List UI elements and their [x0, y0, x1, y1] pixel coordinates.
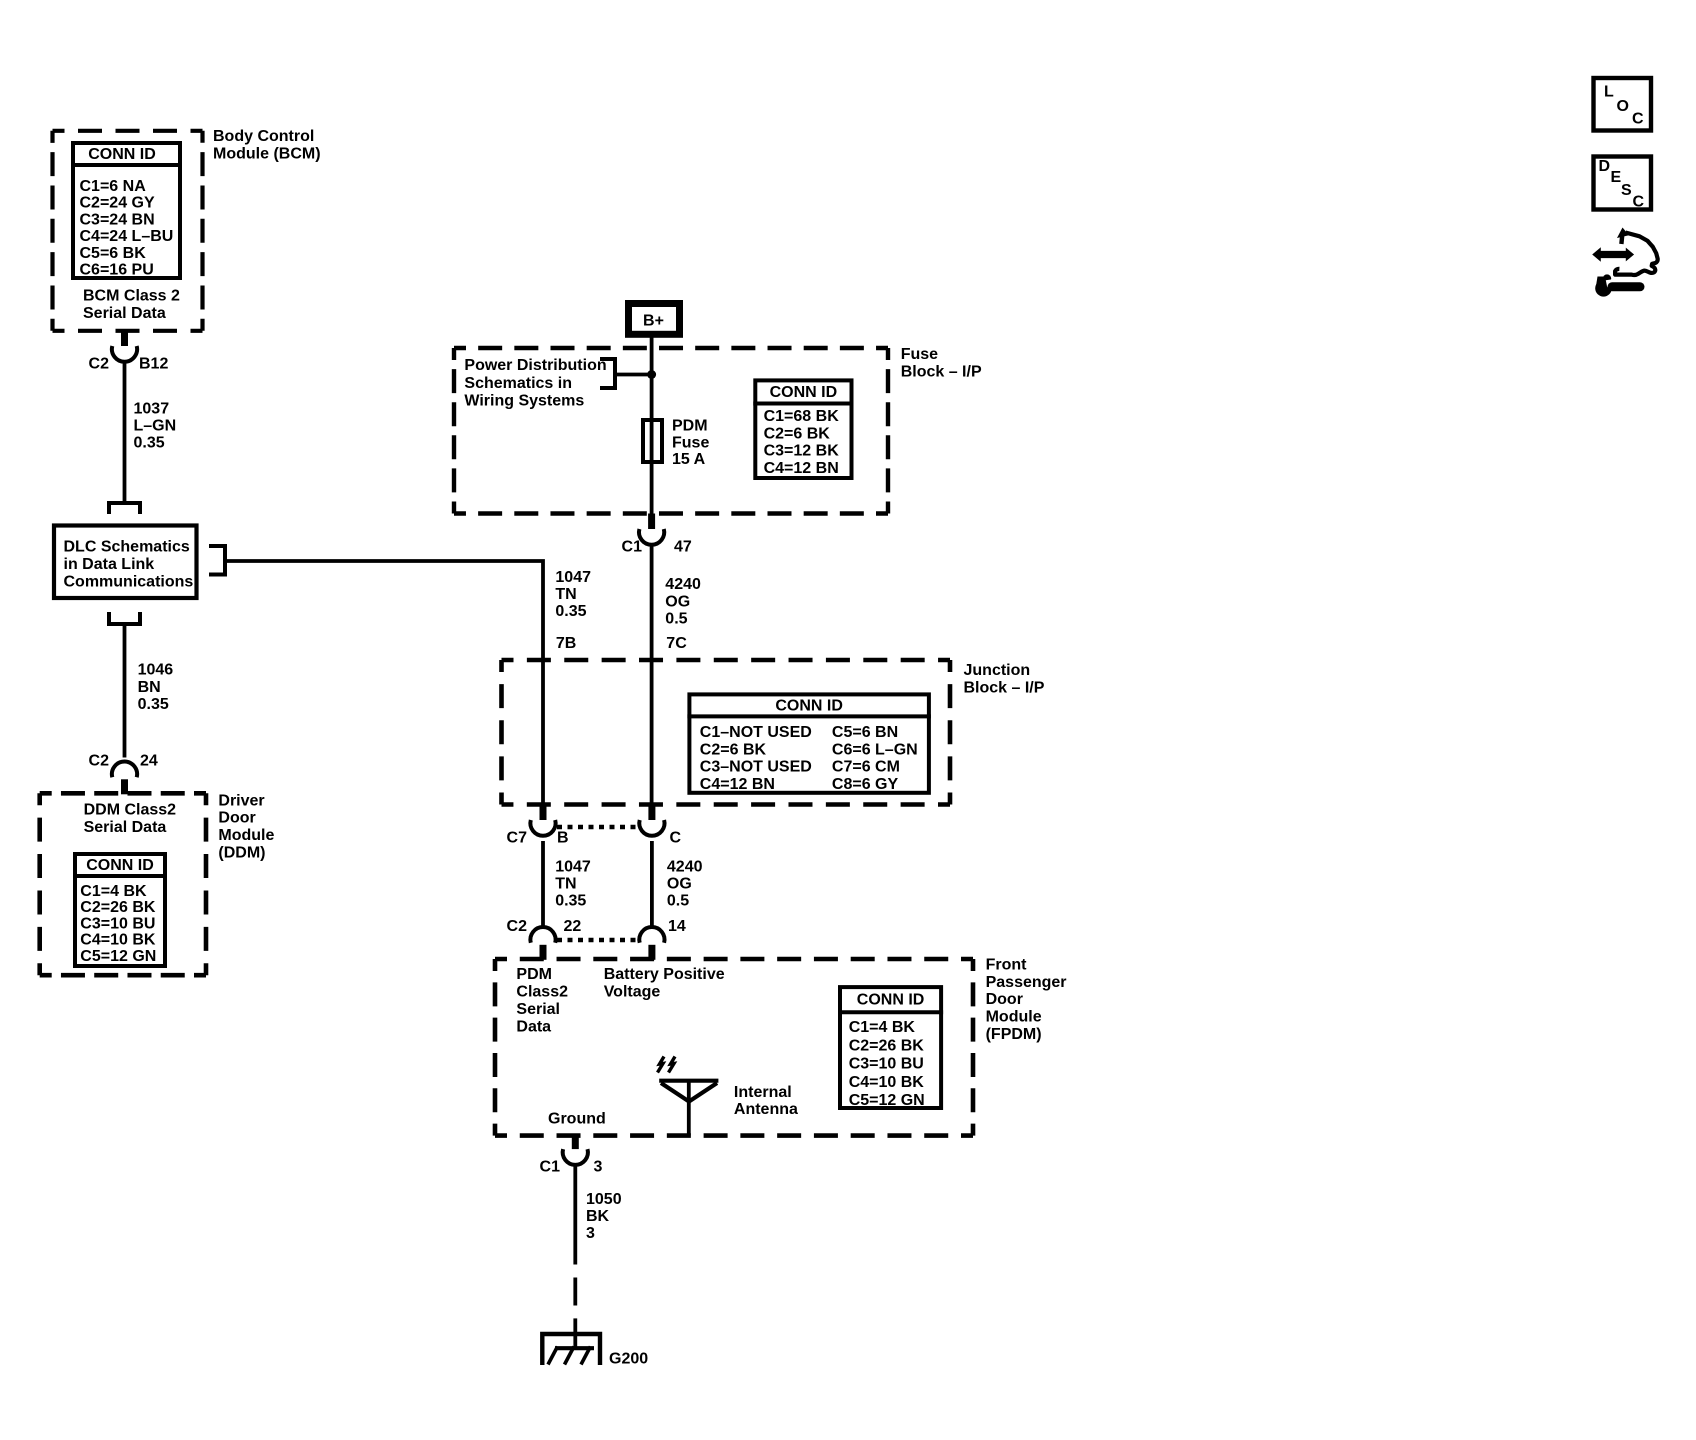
svg-text:0.35: 0.35 [134, 434, 165, 451]
svg-text:C: C [1633, 194, 1645, 211]
svg-text:4240: 4240 [667, 859, 703, 876]
svg-text:Power Distribution: Power Distribution [464, 357, 606, 374]
svg-text:PDM: PDM [672, 418, 708, 435]
svg-text:Body Control: Body Control [213, 128, 314, 145]
svg-text:CONN ID: CONN ID [86, 857, 154, 874]
svg-text:OG: OG [665, 593, 690, 610]
svg-text:in Data Link: in Data Link [64, 556, 155, 573]
svg-text:C: C [1632, 111, 1644, 128]
svg-text:Data: Data [516, 1018, 551, 1035]
svg-text:Block – I/P: Block – I/P [964, 680, 1045, 697]
svg-text:Fuse: Fuse [901, 346, 938, 363]
svg-text:C5=6 BK: C5=6 BK [80, 245, 147, 262]
svg-text:C3=12 BK: C3=12 BK [764, 443, 840, 460]
svg-text:C2=6 BK: C2=6 BK [700, 741, 767, 758]
svg-text:Door: Door [218, 810, 255, 827]
svg-text:TN: TN [555, 876, 576, 893]
svg-text:Driver: Driver [218, 792, 264, 809]
svg-text:S: S [1621, 182, 1632, 199]
svg-text:Block – I/P: Block – I/P [901, 363, 982, 380]
svg-text:22: 22 [564, 918, 582, 935]
svg-text:C1: C1 [622, 539, 643, 556]
svg-text:PDM: PDM [516, 966, 552, 983]
svg-text:Module: Module [986, 1009, 1042, 1026]
svg-text:D: D [1599, 158, 1611, 175]
svg-text:1037: 1037 [134, 401, 170, 418]
svg-text:G200: G200 [609, 1351, 648, 1368]
svg-text:(FPDM): (FPDM) [986, 1026, 1042, 1043]
svg-text:BK: BK [586, 1208, 610, 1225]
svg-text:3: 3 [586, 1225, 595, 1242]
svg-text:C4=10 BK: C4=10 BK [849, 1074, 925, 1091]
svg-text:C7=6 CM: C7=6 CM [832, 759, 900, 776]
svg-text:C2=26 BK: C2=26 BK [80, 899, 156, 916]
svg-text:Fuse: Fuse [672, 434, 709, 451]
svg-text:Battery Positive: Battery Positive [604, 966, 725, 983]
svg-text:C1=68 BK: C1=68 BK [764, 408, 840, 425]
svg-text:C5=6 BN: C5=6 BN [832, 724, 898, 741]
svg-text:C1=4 BK: C1=4 BK [80, 883, 147, 900]
svg-text:Module: Module [218, 827, 274, 844]
svg-text:BN: BN [138, 679, 161, 696]
svg-text:C3–NOT USED: C3–NOT USED [700, 759, 812, 776]
svg-text:C1=4 BK: C1=4 BK [849, 1019, 916, 1036]
svg-text:47: 47 [674, 539, 692, 556]
svg-text:Front: Front [986, 956, 1028, 973]
svg-text:Internal: Internal [734, 1084, 792, 1101]
svg-text:C3=10 BU: C3=10 BU [80, 915, 155, 932]
svg-text:7B: 7B [556, 635, 576, 652]
svg-text:C2=24 GY: C2=24 GY [80, 195, 155, 212]
svg-text:0.5: 0.5 [665, 611, 687, 628]
svg-text:0.35: 0.35 [138, 696, 169, 713]
svg-text:1047: 1047 [555, 859, 591, 876]
svg-text:C7: C7 [507, 830, 528, 847]
svg-text:Communications: Communications [64, 574, 194, 591]
svg-text:Ground: Ground [548, 1111, 606, 1128]
svg-text:CONN ID: CONN ID [770, 384, 838, 401]
svg-text:OG: OG [667, 876, 692, 893]
svg-text:DDM Class2: DDM Class2 [84, 802, 177, 819]
svg-text:C3=10 BU: C3=10 BU [849, 1056, 924, 1073]
svg-text:BCM Class 2: BCM Class 2 [83, 288, 180, 305]
svg-text:C5=12 GN: C5=12 GN [849, 1092, 925, 1109]
svg-text:15 A: 15 A [672, 451, 706, 468]
svg-text:B: B [557, 830, 569, 847]
svg-text:O: O [1617, 98, 1629, 115]
svg-text:B12: B12 [139, 356, 168, 373]
svg-text:C1: C1 [540, 1159, 561, 1176]
svg-text:Class2: Class2 [516, 983, 568, 1000]
svg-text:CONN ID: CONN ID [775, 697, 843, 714]
svg-text:Junction: Junction [964, 662, 1031, 679]
svg-text:Passenger: Passenger [986, 974, 1067, 991]
svg-text:Door: Door [986, 991, 1023, 1008]
svg-text:C6=16 PU: C6=16 PU [80, 262, 154, 279]
svg-text:0.35: 0.35 [555, 893, 586, 910]
svg-text:CONN ID: CONN ID [857, 992, 925, 1009]
svg-text:C4=12 BN: C4=12 BN [700, 776, 775, 793]
svg-text:CONN ID: CONN ID [88, 146, 156, 163]
svg-text:C2=26 BK: C2=26 BK [849, 1037, 925, 1054]
svg-text:Wiring Systems: Wiring Systems [464, 393, 584, 410]
svg-text:14: 14 [668, 918, 686, 935]
svg-text:24: 24 [140, 752, 158, 769]
svg-text:TN: TN [555, 586, 576, 603]
svg-text:C4=10 BK: C4=10 BK [80, 932, 156, 949]
svg-text:C2=6 BK: C2=6 BK [764, 425, 831, 442]
svg-text:C2: C2 [89, 752, 110, 769]
svg-text:L: L [1604, 84, 1614, 101]
svg-text:C4=24 L–BU: C4=24 L–BU [80, 228, 174, 245]
svg-text:Voltage: Voltage [604, 983, 661, 1000]
svg-text:Serial Data: Serial Data [83, 305, 166, 322]
svg-text:C4=12 BN: C4=12 BN [764, 460, 839, 477]
svg-text:1046: 1046 [138, 661, 174, 678]
svg-text:1050: 1050 [586, 1191, 622, 1208]
svg-text:Module (BCM): Module (BCM) [213, 146, 321, 163]
svg-text:C2: C2 [507, 918, 528, 935]
svg-text:1047: 1047 [555, 569, 591, 586]
svg-text:E: E [1611, 169, 1622, 186]
svg-text:B+: B+ [643, 313, 664, 330]
svg-text:C8=6 GY: C8=6 GY [832, 776, 899, 793]
svg-text:(DDM): (DDM) [218, 845, 265, 862]
svg-text:C1–NOT USED: C1–NOT USED [700, 724, 812, 741]
svg-text:0.5: 0.5 [667, 893, 689, 910]
svg-text:Serial: Serial [516, 1001, 560, 1018]
svg-text:C2: C2 [89, 356, 110, 373]
svg-text:DLC Schematics: DLC Schematics [64, 539, 190, 556]
svg-text:Antenna: Antenna [734, 1101, 798, 1118]
svg-text:C5=12 GN: C5=12 GN [80, 948, 156, 965]
svg-text:C3=24 BN: C3=24 BN [80, 211, 155, 228]
svg-text:4240: 4240 [665, 576, 701, 593]
svg-text:L–GN: L–GN [134, 417, 177, 434]
svg-text:7C: 7C [666, 635, 687, 652]
svg-text:C1=6 NA: C1=6 NA [80, 178, 147, 195]
svg-text:3: 3 [594, 1159, 603, 1176]
svg-text:Serial Data: Serial Data [84, 819, 167, 836]
svg-text:C6=6 L–GN: C6=6 L–GN [832, 741, 918, 758]
svg-text:C: C [670, 830, 682, 847]
svg-text:0.35: 0.35 [555, 603, 586, 620]
svg-text:Schematics in: Schematics in [464, 375, 572, 392]
